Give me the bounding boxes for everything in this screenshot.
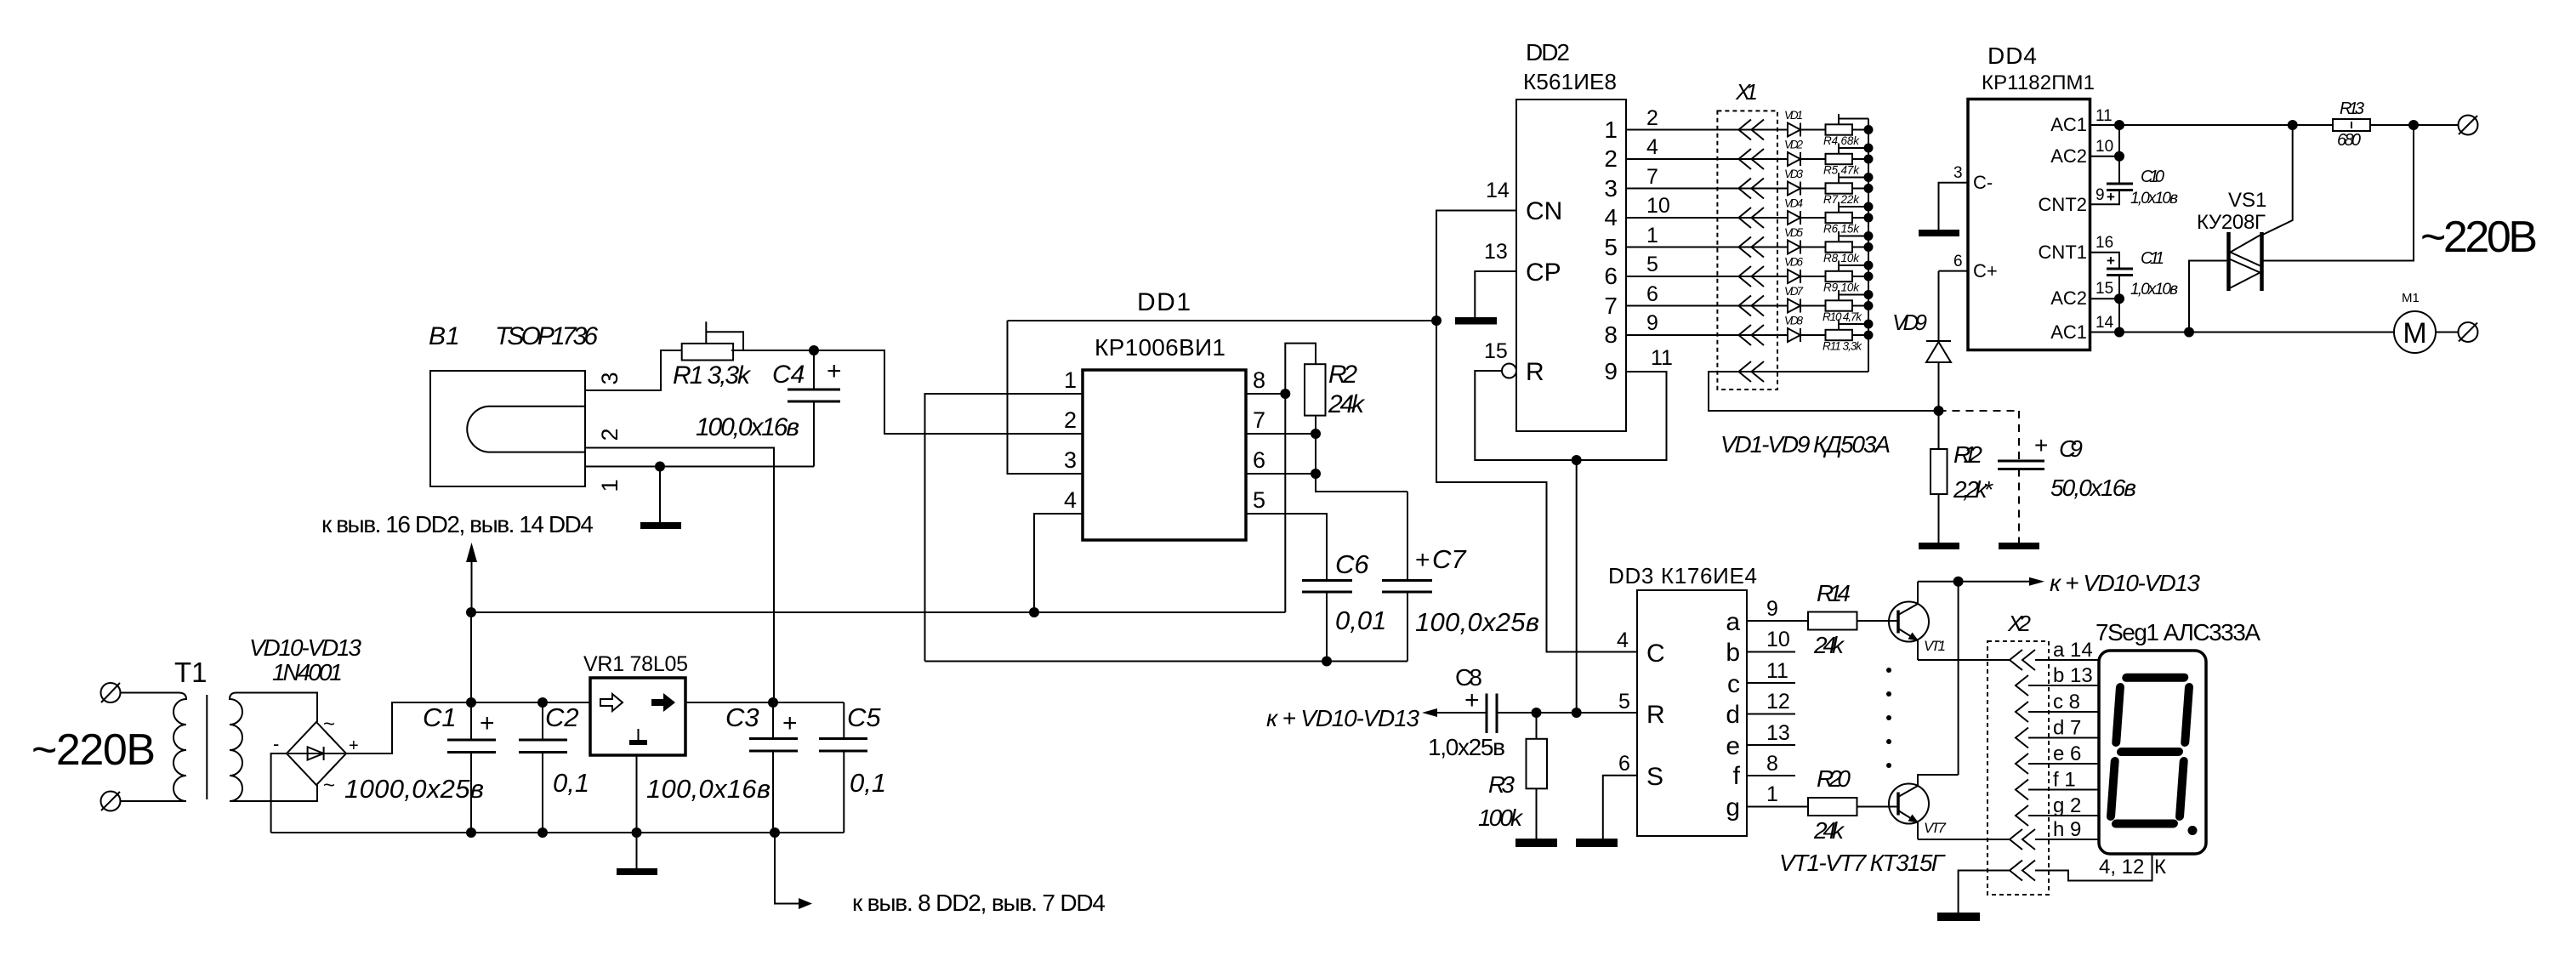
svg-text:C9: C9 [2059, 435, 2083, 462]
svg-text:1: 1 [597, 479, 623, 492]
7seg display 7Seg1 body [2099, 651, 2206, 854]
svg-text:1: 1 [1766, 782, 1778, 806]
svg-text:S: S [1646, 763, 1663, 791]
svg-text:VT7: VT7 [1924, 820, 1947, 836]
svg-text:24k: 24k [1328, 390, 1366, 418]
voltage regulator VR1 box [590, 678, 685, 755]
svg-text:12: 12 [1766, 690, 1790, 714]
X2 contact e [2016, 753, 2028, 774]
svg-text:+: + [782, 709, 798, 737]
wire DD2 R to pin9 net [1475, 371, 1666, 460]
wire X2 common to ground [1959, 871, 2010, 913]
wire stub DD3 f [1747, 775, 1795, 776]
svg-text:14: 14 [1486, 179, 1510, 202]
wire R1 to C4 node [731, 350, 814, 351]
svg-text:1,0x25в: 1,0x25в [1428, 734, 1505, 760]
diode VD5 [1788, 241, 1800, 254]
wire bridge plus to C1 node [346, 702, 471, 753]
svg-text:24k: 24k [1813, 817, 1845, 844]
svg-text:6: 6 [1618, 752, 1630, 776]
svg-text:24k: 24k [1813, 632, 1845, 658]
capacitor C3 [749, 739, 798, 752]
wire DD3 S to ground [1603, 776, 1637, 839]
wires diodes to resistors [1800, 130, 1826, 336]
svg-text:7Seg1 АЛС333А: 7Seg1 АЛС333А [2095, 619, 2260, 645]
X2 contact c [2016, 702, 2028, 722]
IC DD3 box [1637, 590, 1747, 836]
svg-text:11: 11 [1651, 346, 1673, 370]
resistor R1 [682, 344, 733, 361]
arrow to plus VD10-VD13 left [1422, 708, 1437, 717]
svg-text:2: 2 [1646, 106, 1658, 130]
svg-text:M: M [2403, 317, 2426, 350]
wire DD1 pin1 to ground rail [925, 394, 1083, 662]
diode VD7 [1788, 299, 1800, 313]
wire R14 to VT1 base [1857, 620, 1899, 622]
svg-text:9: 9 [1766, 597, 1778, 621]
svg-text:e 6: e 6 [2053, 742, 2081, 765]
wire DD3 g to R20 [1747, 806, 1808, 808]
svg-text:VD1-VD9 КД503А: VD1-VD9 КД503А [1720, 431, 1891, 458]
svg-text:+: + [2107, 189, 2115, 205]
svg-text:+: + [480, 709, 495, 737]
terminal input top [101, 683, 121, 702]
svg-text:5: 5 [1604, 234, 1618, 260]
svg-text:1,0x10в: 1,0x10в [2130, 281, 2178, 299]
svg-text:C3: C3 [725, 702, 759, 732]
wire DD4 C- to ground [1939, 183, 1969, 230]
svg-text:C+: C+ [1973, 260, 1998, 281]
svg-text:CP: CP [1526, 259, 1561, 287]
wire stub DD3 c [1747, 682, 1795, 684]
wire DD2 CP to ground [1475, 271, 1516, 317]
svg-text:2: 2 [1604, 145, 1618, 172]
transformer T1 core [206, 695, 208, 799]
svg-text:10: 10 [1766, 628, 1790, 651]
wire input top to T1 [121, 692, 179, 694]
svg-text:КУ208Г: КУ208Г [2197, 211, 2266, 234]
svg-text:DD2: DD2 [1526, 39, 1570, 65]
arrow to pin8 DD2 pin7 DD4 [775, 833, 799, 904]
resistor bus X1 [1868, 119, 1869, 372]
svg-text:13: 13 [1766, 721, 1790, 745]
wire VS1 gate to AC1-11 node [2262, 125, 2293, 236]
arrow to plus VD10-VD13 right [1959, 581, 2033, 583]
wire DD2 CN to DD1 net and DD3 C [1436, 211, 1637, 652]
7seg digit 8 [2110, 678, 2189, 824]
node C4 top [809, 345, 819, 355]
wire R13 to output terminal [2370, 124, 2459, 126]
svg-text:50,0x16в: 50,0x16в [2050, 475, 2136, 501]
wire DD1 output top net to DD2 CN [1008, 320, 1437, 321]
B1 lens [467, 407, 585, 452]
svg-text:1N4001: 1N4001 [272, 659, 343, 685]
svg-text:T1: T1 [174, 657, 208, 688]
svg-text:C5: C5 [847, 702, 881, 732]
svg-text:TSOP1736: TSOP1736 [495, 322, 598, 350]
svg-text:R2: R2 [1328, 361, 1357, 389]
wire motor to terminal [2436, 332, 2459, 333]
resistor R6 [1826, 213, 1853, 223]
svg-text:M1: M1 [2402, 291, 2420, 305]
svg-text:VT1-VT7 КТ315Г: VT1-VT7 КТ315Г [1779, 850, 1946, 876]
svg-text:К: К [2154, 856, 2166, 879]
svg-text:9: 9 [1646, 311, 1658, 335]
svg-text:100,0x16в: 100,0x16в [696, 413, 799, 441]
X2 contact common [2010, 861, 2035, 881]
resistor R2 [1305, 364, 1326, 415]
node +9V top wire C1-C2-VR1 [471, 702, 590, 703]
X2 contact d [2016, 728, 2028, 748]
wire DD1 pin8 node [1246, 393, 1285, 395]
wire R20 to VT7 base [1857, 806, 1899, 808]
svg-text:R4 68k: R4 68k [1823, 134, 1860, 147]
X2 contact b [2016, 675, 2028, 696]
svg-text:CNT1: CNT1 [2039, 242, 2087, 263]
svg-text:AC1: AC1 [2050, 114, 2087, 135]
IC DD4 box [1968, 100, 2090, 350]
resistor R4 [1826, 124, 1853, 134]
wire B1 pin2 to +5V node C3 [585, 448, 774, 703]
ground below R3 [1515, 839, 1557, 847]
svg-text:2: 2 [1064, 407, 1077, 433]
omitted transistors dots [1886, 668, 1891, 768]
ground at X2 common [1937, 913, 1980, 921]
connector X2 dashed box [1987, 641, 2049, 895]
svg-text:B1: B1 [429, 322, 460, 350]
IC DD1 box [1083, 370, 1246, 540]
DD2 outside pin numbers [1646, 106, 1670, 335]
svg-text:14: 14 [2095, 314, 2114, 332]
wire DD1 pin3 to top net [1008, 321, 1083, 474]
svg-text:15: 15 [1484, 339, 1508, 363]
diode VD9 [1938, 271, 1940, 342]
svg-text:6: 6 [1646, 282, 1658, 306]
svg-text:C8: C8 [1455, 664, 1482, 691]
svg-text:C: C [1646, 640, 1665, 668]
terminal output top [2459, 116, 2478, 135]
wire arrow to C8 [1432, 712, 1487, 714]
svg-text:7: 7 [1253, 407, 1265, 433]
svg-text:6: 6 [1604, 263, 1618, 289]
svg-text:1: 1 [1646, 224, 1658, 247]
wire +9V riser C1 to VCC rail [470, 612, 472, 702]
svg-text:R1 3,3k: R1 3,3k [673, 361, 752, 390]
VR1 ground pin mark [638, 729, 640, 740]
svg-text:~220В: ~220В [2420, 213, 2538, 262]
svg-text:100,0x25в: 100,0x25в [1415, 607, 1539, 637]
wire VT1 collector to plus node [1918, 581, 1959, 583]
VR1 input arrow [600, 694, 623, 711]
svg-text:4: 4 [1646, 135, 1658, 159]
wire stub DD3 e [1747, 744, 1795, 746]
resistor R12 [1938, 411, 1940, 449]
svg-text:2: 2 [597, 428, 623, 441]
svg-text:+: + [2107, 253, 2115, 269]
svg-text:C4: C4 [772, 361, 805, 389]
ground below C9 [1999, 543, 2039, 549]
svg-text:R11 3,3k: R11 3,3k [1823, 340, 1862, 353]
svg-text:к + VD10-VD13: к + VD10-VD13 [1266, 705, 1419, 731]
DD4 pin numbers [2095, 107, 2114, 332]
R1 trimmer tap [706, 321, 743, 350]
ground below R12 [1919, 543, 1959, 549]
svg-text:3: 3 [1604, 175, 1618, 202]
svg-text:11: 11 [1766, 659, 1788, 683]
svg-text:DD1: DD1 [1137, 288, 1191, 316]
svg-text:к выв. 8 DD2, выв. 7 DD4: к выв. 8 DD2, выв. 7 DD4 [852, 890, 1106, 916]
svg-text:КР1006ВИ1: КР1006ВИ1 [1095, 334, 1225, 361]
svg-text:4: 4 [1604, 204, 1618, 230]
resistor R8 [1826, 242, 1853, 252]
svg-text:VD2: VD2 [1784, 139, 1803, 151]
svg-text:К561ИЕ8: К561ИЕ8 [1523, 69, 1617, 94]
wire C8 to DD3 R [1497, 712, 1637, 714]
svg-text:g 2: g 2 [2053, 794, 2081, 817]
wire DD1 pin5 to C6 [1246, 514, 1327, 581]
resistor R5 [1826, 154, 1853, 164]
svg-text:VD8: VD8 [1784, 315, 1803, 327]
wire stub DD3 b [1747, 651, 1795, 653]
svg-text:3: 3 [1064, 447, 1077, 473]
svg-text:10: 10 [2095, 138, 2113, 156]
triac VS1 [2229, 232, 2262, 291]
svg-text:9: 9 [2095, 186, 2105, 204]
wire VT1 emitter to X2 row a [1918, 659, 2010, 661]
svg-text:КР1182ПМ1: КР1182ПМ1 [1982, 71, 2095, 94]
svg-text:CN: CN [1526, 197, 1562, 225]
svg-text:VD5: VD5 [1784, 226, 1803, 239]
capacitor C11 [2107, 269, 2133, 276]
X1 contact row 9 [1738, 361, 1764, 382]
transformer T1 secondary winding [230, 693, 242, 802]
svg-text:AC2: AC2 [2050, 145, 2087, 167]
X2 contact h [2010, 829, 2035, 850]
svg-text:100k: 100k [1478, 805, 1524, 831]
svg-text:1000,0x25в: 1000,0x25в [344, 774, 484, 804]
svg-text:11: 11 [2095, 107, 2113, 125]
svg-text:c 8: c 8 [2053, 691, 2080, 714]
svg-text:5: 5 [1253, 487, 1265, 513]
svg-text:6: 6 [1953, 253, 1963, 270]
svg-text:R: R [1646, 701, 1665, 729]
IC DD2 box [1516, 100, 1626, 431]
svg-text:100,0x16в: 100,0x16в [646, 774, 771, 804]
svg-text:9: 9 [1604, 358, 1618, 384]
svg-text:d 7: d 7 [2053, 717, 2081, 740]
wire B1 pin3 to R1 [585, 350, 681, 390]
svg-text:+: + [827, 357, 842, 385]
svg-text:h 9: h 9 [2053, 818, 2081, 841]
svg-text:1: 1 [1604, 117, 1618, 143]
wire R2 bottom to pins 7 6 and C7 [1316, 416, 1407, 492]
diode VD4 [1788, 211, 1800, 225]
svg-text:5: 5 [1618, 690, 1630, 714]
svg-text:8: 8 [1253, 367, 1265, 393]
transistor VT7 [1889, 784, 1929, 824]
svg-text:680: 680 [2337, 131, 2361, 150]
svg-text:15: 15 [2095, 280, 2113, 298]
transistor VT1 [1889, 602, 1929, 642]
IR receiver B1 box [430, 371, 585, 486]
ground symbol at CP [1455, 317, 1497, 325]
svg-text:6: 6 [1253, 447, 1265, 473]
wire bus to X1 row9 to VD9 node [1709, 372, 1939, 411]
ground symbol below VR1 [636, 833, 638, 868]
svg-text:DD3 К176ИЕ4: DD3 К176ИЕ4 [1608, 563, 1757, 589]
svg-text:X2: X2 [2007, 611, 2032, 636]
transformer T1 primary winding [173, 693, 186, 802]
display segment pin labels [2053, 639, 2093, 841]
X1 contacts rows 1-8 [1738, 120, 1764, 346]
7seg decimal point [2188, 826, 2198, 835]
DD2 inside numbers 1-8 [1604, 117, 1618, 348]
svg-text:13: 13 [1484, 240, 1508, 264]
wire DD2 pin9 net to DD3 R [1576, 460, 1578, 713]
svg-text:VT1: VT1 [1924, 638, 1946, 654]
svg-text:VD1: VD1 [1784, 109, 1803, 122]
wire T1 secondary top to bridge [236, 693, 317, 723]
svg-text:R5 47k: R5 47k [1823, 164, 1860, 177]
wire VT7 emitter to X2 row h [1918, 839, 2010, 840]
svg-text:~: ~ [323, 713, 335, 736]
svg-text:R9 10k: R9 10k [1823, 281, 1860, 294]
X2 contact a [2010, 650, 2035, 670]
svg-text:DD4: DD4 [1987, 43, 2037, 69]
wires X2 to display segments a-h [2028, 660, 2099, 839]
svg-text:VR1 78L05: VR1 78L05 [583, 652, 688, 676]
svg-text:R: R [1526, 358, 1544, 386]
svg-text:~220В: ~220В [31, 725, 156, 775]
arrow to pin16 DD2 pin14 DD4 [471, 553, 473, 612]
capacitor C1 [447, 740, 496, 753]
svg-text:0,01: 0,01 [1335, 606, 1386, 635]
VR1 output arrow [651, 693, 675, 712]
svg-text:R3: R3 [1488, 771, 1515, 798]
wire DD4 AC1-11 output [2090, 124, 2334, 126]
svg-text:2,2k*: 2,2k* [1953, 476, 1993, 503]
svg-text:0,1: 0,1 [850, 768, 886, 798]
wire VR1 out to C3 C5 [685, 702, 844, 703]
diode VD8 [1788, 328, 1800, 342]
capacitor C9 dashed links [1939, 411, 2020, 543]
diode VD1 [1788, 123, 1800, 137]
capacitor C9 plates [1998, 461, 2044, 469]
svg-text:g: g [1726, 793, 1740, 822]
capacitor C7 [1407, 492, 1408, 581]
svg-text:3: 3 [1953, 164, 1963, 182]
svg-text:a 14: a 14 [2053, 639, 2093, 662]
svg-text:VD10-VD13: VD10-VD13 [249, 634, 361, 661]
svg-text:1,0x10в: 1,0x10в [2130, 190, 2178, 208]
wire DD4 AC2-15 [2090, 298, 2120, 299]
svg-text:C10: C10 [2141, 168, 2164, 186]
node VD9 R12 C9 [1934, 406, 1944, 416]
svg-text:R8 10k: R8 10k [1823, 252, 1860, 264]
svg-text:16: 16 [2095, 234, 2113, 252]
svg-text:+: + [2034, 432, 2048, 458]
DD3 segment letters a-g [1726, 608, 1740, 822]
svg-text:d: d [1726, 701, 1740, 729]
ground rail DD1 [925, 661, 1408, 662]
svg-text:~: ~ [323, 774, 335, 797]
connector X1 dashed box [1717, 111, 1777, 390]
wire VR1 ground to rail [636, 755, 638, 833]
svg-text:VD9: VD9 [1892, 310, 1927, 335]
resistor R20 [1808, 798, 1857, 816]
resistor R10 [1826, 300, 1853, 310]
wire DD1 pin7 [1246, 433, 1316, 435]
ground rail bottom [271, 832, 844, 833]
svg-text:f: f [1733, 762, 1741, 790]
wire DD4 C+ to VD9 [1939, 270, 1969, 272]
svg-text:10: 10 [1646, 194, 1670, 218]
diode VD2 [1788, 152, 1800, 166]
capacitor C2 [519, 740, 567, 753]
capacitor C5 [819, 739, 867, 752]
diode VD3 [1788, 182, 1800, 196]
svg-text:5: 5 [1646, 253, 1658, 276]
svg-text:7: 7 [1646, 165, 1658, 189]
wire VCC rail riser to pin8 and R2 top [1285, 344, 1316, 612]
X2 contact f [2016, 780, 2028, 800]
svg-text:C1: C1 [423, 702, 457, 732]
svg-text:R14: R14 [1817, 580, 1851, 606]
wire DD3 a to R14 [1747, 620, 1808, 622]
svg-text:AC1: AC1 [2050, 321, 2087, 343]
svg-text:VD6: VD6 [1784, 256, 1803, 269]
svg-text:к выв. 16 DD2, выв. 14 DD4: к выв. 16 DD2, выв. 14 DD4 [321, 511, 594, 537]
wire stub DD3 d [1747, 714, 1795, 715]
VCC +9V rail [471, 611, 1285, 613]
svg-text:b 13: b 13 [2053, 664, 2093, 687]
wire DD1 pin6 [1246, 473, 1316, 475]
svg-text:8: 8 [1604, 321, 1618, 348]
svg-text:AC2: AC2 [2050, 287, 2087, 309]
svg-text:+: + [1415, 546, 1430, 574]
svg-text:7: 7 [1604, 293, 1618, 319]
capacitor C6 [1302, 581, 1352, 593]
wire X2 common to display cathode [2035, 854, 2152, 881]
svg-text:4: 4 [1064, 487, 1077, 513]
wire DD4 AC1-14 to motor [2090, 332, 2395, 333]
svg-text:VD3: VD3 [1784, 168, 1803, 180]
wire C4 node to DD1 pin2 [814, 350, 1083, 434]
motor M1 [2394, 311, 2436, 353]
svg-text:C2: C2 [545, 702, 579, 732]
collector rail VT1-VT7 [1958, 582, 1959, 775]
svg-text:3: 3 [597, 372, 623, 384]
svg-text:f 1: f 1 [2053, 769, 2076, 792]
ground below B1 pin1 [659, 467, 661, 523]
resistor R11 [1826, 330, 1853, 340]
DD2 outputs 1-8 wires to X1 [1626, 130, 1788, 336]
wire DD4 AC2-10 [2090, 156, 2120, 157]
ground at DD3 S [1576, 839, 1618, 847]
svg-text:CNT2: CNT2 [2039, 194, 2087, 215]
resistor R14 [1808, 612, 1857, 630]
wire VS1 right to output [2264, 125, 2414, 261]
resistor R13 [2333, 119, 2370, 131]
svg-text:R10 4,7k: R10 4,7k [1823, 310, 1862, 323]
svg-text:R6 15k: R6 15k [1823, 223, 1860, 236]
svg-text:a: a [1726, 608, 1740, 636]
capacitor C8 [1487, 694, 1497, 734]
svg-text:1: 1 [1064, 367, 1077, 393]
wire B1 pin1 to C4 bottom [585, 466, 814, 468]
svg-text:R12: R12 [1953, 441, 1982, 468]
svg-text:VD7: VD7 [1784, 285, 1803, 298]
